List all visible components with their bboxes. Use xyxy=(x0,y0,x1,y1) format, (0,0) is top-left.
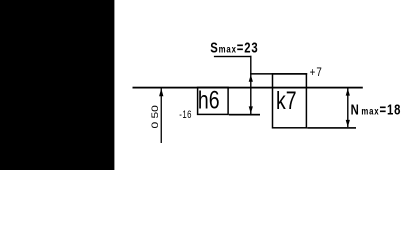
k7 box xyxy=(273,74,307,128)
svg-text:+7: +7 xyxy=(310,66,323,79)
Smax dimension vertical xyxy=(250,56,251,115)
k7 bottom extension line xyxy=(307,127,356,129)
Smax down arrow xyxy=(249,106,253,113)
svg-text:-16: -16 xyxy=(179,108,192,121)
zero line xyxy=(133,87,363,89)
svg-text:k7: k7 xyxy=(276,87,297,115)
black sidebar xyxy=(0,0,114,170)
dia50 arrow xyxy=(159,88,163,96)
svg-text:h6: h6 xyxy=(198,86,220,114)
dia50 dimension line xyxy=(161,88,162,143)
tolerance-fit diagram h6/k7 xyxy=(0,0,416,170)
plus7 line xyxy=(250,73,307,75)
svg-text:0 50: 0 50 xyxy=(150,105,160,128)
Nmax dimension vertical xyxy=(347,88,348,127)
Smax up arrow xyxy=(249,75,253,82)
h6 box xyxy=(198,87,229,114)
Nmax down arrow xyxy=(346,120,350,127)
Smax leader horizontal xyxy=(214,56,252,57)
Nmax up arrow xyxy=(346,88,350,95)
minus16 extension line xyxy=(229,114,260,116)
